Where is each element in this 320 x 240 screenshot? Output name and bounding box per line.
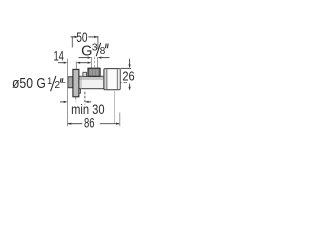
svg-text:8: 8: [100, 46, 106, 57]
svg-text:26: 26: [122, 69, 134, 84]
svg-text:14: 14: [53, 48, 64, 63]
svg-text:2: 2: [55, 80, 61, 91]
svg-text:1: 1: [47, 76, 52, 86]
svg-text:ø50 G: ø50 G: [12, 76, 46, 92]
svg-text:3: 3: [92, 41, 98, 53]
svg-text:86: 86: [84, 114, 95, 130]
